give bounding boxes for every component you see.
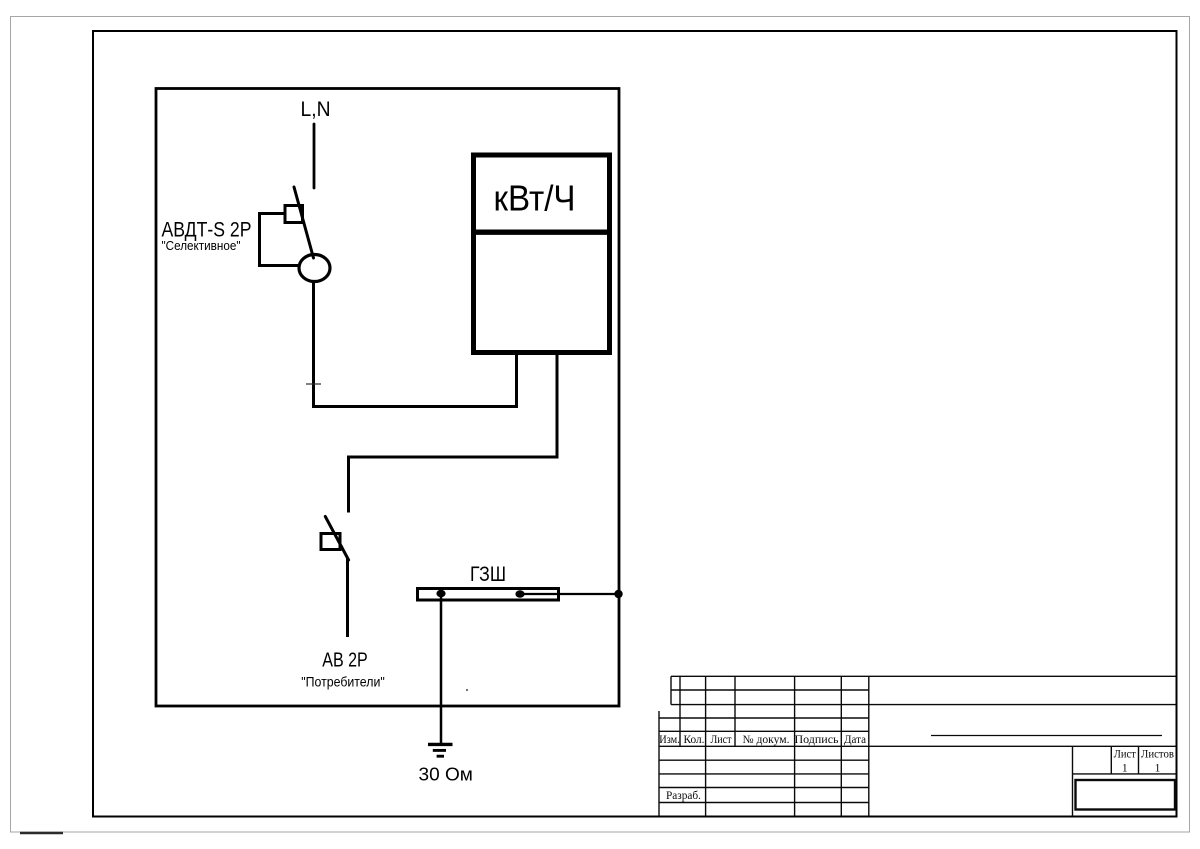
wire supply drop <box>313 124 316 188</box>
svg-text:АВ 2Р: АВ 2Р <box>322 650 368 672</box>
svg-text:Подпись: Подпись <box>795 734 839 746</box>
svg-text:Дата: Дата <box>844 734 866 746</box>
breaker QF1 АВДТ-S 2P (RCBO) <box>260 187 331 282</box>
svg-text:1: 1 <box>1122 763 1128 775</box>
svg-text:Кол.: Кол. <box>684 734 705 746</box>
svg-text:1: 1 <box>1155 763 1161 775</box>
title block grid <box>659 676 1176 816</box>
circuit enclosure box <box>156 89 619 707</box>
wire QF1 to meter <box>314 282 517 407</box>
junction dot on enclosure <box>614 590 622 598</box>
wire meter to QF2 <box>349 354 558 513</box>
svg-text:Листов: Листов <box>1141 749 1175 761</box>
breaker QF2 АВ 2Р <box>321 517 349 638</box>
svg-text:"Потребители": "Потребители" <box>301 675 385 690</box>
busbar bolt 2 <box>515 590 524 597</box>
svg-text:кВт/Ч: кВт/Ч <box>494 178 576 219</box>
kWh meter box <box>473 155 610 353</box>
svg-text:"Селективное": "Селективное" <box>162 238 241 253</box>
busbar ГЗШ <box>418 589 559 601</box>
svg-text:ГЗШ: ГЗШ <box>470 563 506 586</box>
svg-text:L,N: L,N <box>301 98 331 121</box>
title block doc box <box>1076 780 1176 810</box>
svg-text:Разраб.: Разраб. <box>666 790 701 802</box>
svg-text:№ докум.: № докум. <box>743 734 790 746</box>
speck <box>466 689 468 691</box>
busbar bolt 1 <box>436 590 445 597</box>
svg-text:Изм.: Изм. <box>659 734 680 746</box>
svg-text:Лист: Лист <box>1114 749 1136 761</box>
svg-text:30 Ом: 30 Ом <box>419 765 473 785</box>
ground electrode symbol <box>428 744 453 756</box>
junction tick on wire <box>306 383 321 385</box>
scan mark bottom-left <box>20 832 63 834</box>
wire ГЗШ to earth <box>440 597 443 744</box>
signature underline <box>931 735 1162 737</box>
wire ГЗШ to enclosure <box>520 593 619 595</box>
svg-text:Лист: Лист <box>711 734 732 746</box>
